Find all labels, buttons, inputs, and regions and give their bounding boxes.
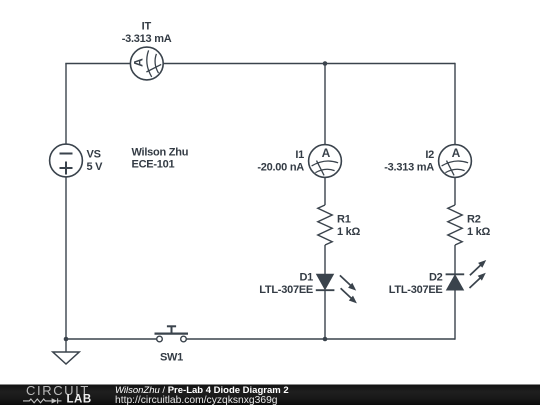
LED D2 emission arrow 2 [470, 273, 486, 288]
wire resistor R2 to diode D2 [454, 245, 456, 274]
svg-text:LTL-307EE: LTL-307EE [389, 284, 443, 296]
LED D2 emission arrow 1 [470, 260, 486, 275]
ground stem [65, 339, 67, 352]
svg-text:Wilson Zhu: Wilson Zhu [132, 147, 189, 159]
svg-text:-3.313 mA: -3.313 mA [122, 33, 172, 45]
wire branch I1 upper (top rail to ammeter I1) [324, 64, 326, 145]
svg-text:LAB: LAB [67, 394, 92, 405]
wire top rail right of ammeter IT [163, 63, 455, 65]
LED D1 body [317, 274, 334, 289]
svg-text:-3.313 mA: -3.313 mA [384, 162, 434, 174]
svg-text:R2: R2 [467, 214, 481, 226]
svg-text:-20.00 nA: -20.00 nA [257, 162, 304, 174]
wire diode D1 to bottom rail [324, 290, 326, 339]
svg-text:I1: I1 [295, 149, 304, 161]
wire diode D2 to bottom rail [454, 290, 456, 340]
svg-text:1 kΩ: 1 kΩ [337, 226, 361, 238]
resistor R2 [448, 205, 462, 245]
ground symbol [53, 352, 79, 364]
ammeter I1 [309, 145, 342, 178]
svg-text:http://circuitlab.com/cyzqksnx: http://circuitlab.com/cyzqksnxg369g [115, 395, 278, 405]
wire ammeter I1 to resistor R1 [324, 177, 326, 205]
voltage source VS [50, 144, 83, 177]
svg-text:R1: R1 [337, 214, 351, 226]
node junction dot top rail [323, 61, 328, 66]
ammeter IT [130, 47, 163, 80]
svg-text:D1: D1 [299, 272, 313, 284]
svg-text:IT: IT [142, 21, 152, 33]
wire bottom rail right of switch [186, 338, 455, 340]
svg-text:ECE-101: ECE-101 [132, 159, 175, 171]
wire resistor R1 to diode D1 [324, 245, 326, 274]
node junction dot bottom-left (ground tap) [64, 337, 69, 342]
logo resistor-diode glyph [23, 398, 62, 403]
LED D1 emission arrow 1 [340, 275, 356, 290]
svg-text:1 kΩ: 1 kΩ [467, 226, 491, 238]
wire right vertical top (top rail corner down to ammeter I2) [454, 63, 456, 145]
LED D1 cathode bar [316, 289, 335, 291]
resistor R1 [318, 205, 332, 245]
LED D2 body [447, 275, 464, 290]
wire ammeter I2 to resistor R2 [454, 177, 456, 205]
svg-text:I2: I2 [425, 149, 434, 161]
wire bottom rail left of switch [66, 338, 157, 340]
LED D1 emission arrow 2 [341, 288, 357, 303]
wire left vertical (VS bottom to bottom rail) [65, 177, 67, 339]
svg-text:D2: D2 [429, 272, 443, 284]
svg-text:5 V: 5 V [87, 161, 104, 173]
wire top-left vertical (VS top to top rail) [65, 64, 67, 145]
ammeter I2 [439, 145, 472, 178]
footer bar [0, 385, 540, 405]
switch SW1 [155, 326, 189, 342]
svg-text:LTL-307EE: LTL-307EE [259, 284, 313, 296]
svg-text:VS: VS [87, 149, 101, 161]
LED D2 cathode bar [446, 273, 465, 275]
node junction dot bottom rail at D1 branch [323, 337, 328, 342]
wire top rail left of ammeter IT [65, 63, 130, 65]
svg-text:SW1: SW1 [160, 352, 183, 364]
